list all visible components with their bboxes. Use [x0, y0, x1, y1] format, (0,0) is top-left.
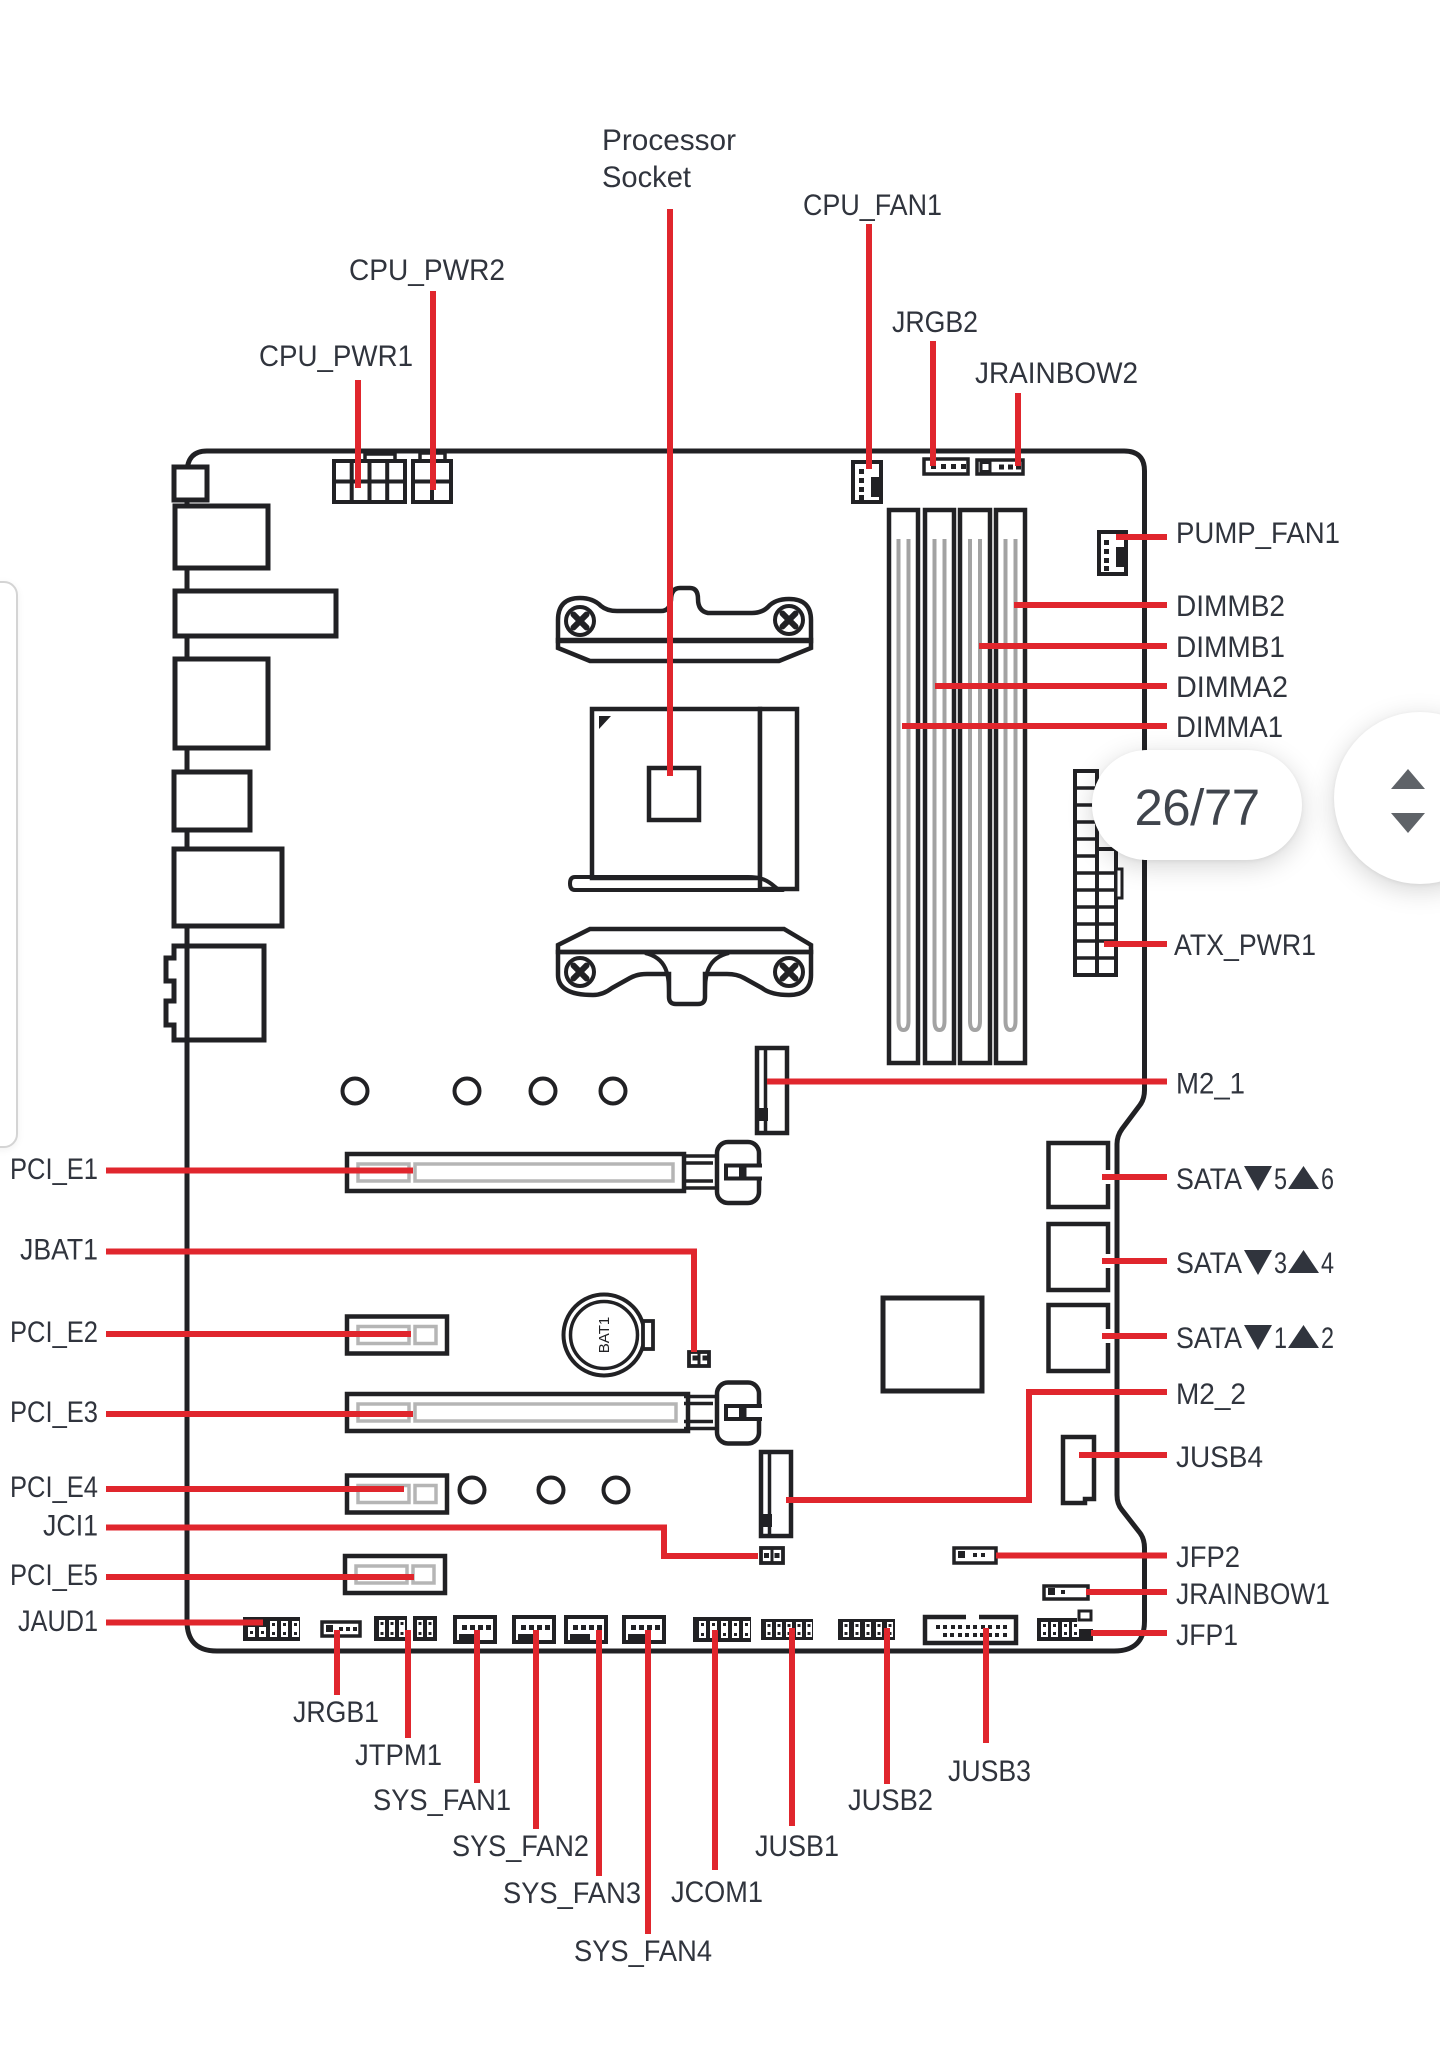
PCI_E3 retention latch	[684, 1395, 719, 1399]
svg-text:PCI_E2: PCI_E2	[10, 1316, 98, 1349]
red line CPU_PWR2	[430, 291, 436, 490]
svg-text:CPU_PWR2: CPU_PWR2	[349, 254, 505, 287]
JBAT1 clear-CMOS jumper	[689, 1352, 709, 1366]
bottom bracket funnel inner curves	[645, 953, 729, 993]
svg-text:SATA: SATA	[1176, 1322, 1242, 1355]
DIMM slot B2 outer	[996, 510, 1025, 1063]
CPU retention bracket bottom bar	[558, 952, 811, 1004]
svg-text:DIMMA2: DIMMA2	[1176, 671, 1288, 704]
scroll up arrow	[1391, 769, 1425, 789]
PCI_E1 retention latch	[684, 1154, 719, 1158]
SATA port pair 2	[1049, 1224, 1109, 1290]
PCI_E3 x16 slot	[347, 1394, 688, 1431]
red line SATA12	[1102, 1333, 1167, 1339]
rear IO connector block E	[174, 772, 250, 830]
svg-text:JCI1: JCI1	[43, 1510, 98, 1543]
red line JRGB2	[930, 341, 936, 466]
red line DIMMB1	[979, 643, 1167, 649]
svg-text:JRGB2: JRGB2	[892, 306, 978, 339]
red line SYS_FAN4	[645, 1630, 651, 1934]
connector CPU_FAN1	[853, 462, 881, 502]
red line PCI_E1	[106, 1168, 413, 1174]
svg-text:SYS_FAN2: SYS_FAN2	[452, 1830, 589, 1863]
red line CPU_FAN1	[866, 224, 872, 469]
red line CPU_PWR1	[355, 380, 361, 488]
svg-text:CPU_FAN1: CPU_FAN1	[803, 189, 942, 222]
connector JRGB2	[924, 459, 968, 474]
red line SATA34	[1102, 1258, 1167, 1264]
svg-text:DIMMB1: DIMMB1	[1176, 631, 1285, 664]
DIMM slot A1 outer	[889, 510, 918, 1063]
svg-text:SYS_FAN1: SYS_FAN1	[373, 1784, 511, 1817]
mounting hole 2	[455, 1079, 480, 1104]
svg-text:PCI_E4: PCI_E4	[10, 1471, 98, 1504]
svg-text:JFP2: JFP2	[1176, 1541, 1240, 1574]
red line DIMMB2	[1014, 602, 1167, 608]
mounting hole 3	[531, 1079, 556, 1104]
svg-text:JRAINBOW1: JRAINBOW1	[1176, 1578, 1330, 1611]
svg-text:JUSB3: JUSB3	[948, 1755, 1031, 1788]
red line PCI_E3	[106, 1411, 413, 1417]
rear IO connector block F	[174, 849, 282, 926]
scroll widget	[1334, 712, 1440, 884]
red line JFP1	[1091, 1630, 1167, 1636]
rear IO connector small square	[174, 467, 207, 500]
red line JRAINBOW2	[1015, 393, 1021, 466]
connector JFP2	[954, 1548, 996, 1563]
red line PCI_E2	[106, 1331, 411, 1337]
svg-text:M2_2: M2_2	[1176, 1378, 1246, 1411]
DIMM slot B1 inner channel	[970, 539, 980, 1030]
svg-text:6: 6	[1321, 1163, 1334, 1196]
svg-text:PCI_E3: PCI_E3	[10, 1396, 98, 1429]
red line JRGB1	[334, 1630, 340, 1695]
svg-text:3: 3	[1274, 1247, 1287, 1280]
svg-text:BAT1: BAT1	[596, 1317, 613, 1353]
connector PUMP_FAN1	[1099, 532, 1126, 574]
DIMM slot B1 outer	[960, 510, 990, 1063]
svg-text:JUSB1: JUSB1	[755, 1830, 839, 1863]
red line SYS_FAN2	[533, 1630, 539, 1829]
connector M2_2	[761, 1452, 791, 1536]
svg-text:PUMP_FAN1: PUMP_FAN1	[1176, 517, 1340, 550]
svg-text:DIMMB2: DIMMB2	[1176, 590, 1285, 623]
connector CPU_PWR1 8-pin	[334, 461, 405, 502]
svg-text:JRAINBOW2: JRAINBOW2	[975, 357, 1138, 390]
screw top-right	[775, 606, 803, 634]
DIMM slot A1 inner channel	[899, 539, 909, 1030]
page indicator pill 26/77	[1092, 750, 1302, 860]
red line JTPM1	[405, 1630, 411, 1738]
svg-text:JRGB1: JRGB1	[293, 1696, 379, 1729]
red line SATA56	[1102, 1174, 1167, 1180]
svg-text:5: 5	[1274, 1163, 1287, 1196]
red line PCI_E4	[106, 1486, 404, 1492]
svg-text:DIMMA1: DIMMA1	[1176, 711, 1283, 744]
PCI_E1 x16 slot	[347, 1154, 684, 1191]
red line PCI_E5	[106, 1574, 414, 1580]
SATA port pair 1	[1049, 1143, 1109, 1207]
connector SYS_FAN4	[624, 1617, 664, 1642]
connector CPU_PWR2 4-pin	[413, 461, 451, 502]
screw bottom-right	[775, 958, 803, 986]
connector JFP1	[1037, 1618, 1093, 1641]
red line PUMP_FAN1	[1116, 534, 1167, 540]
CPU retention bracket bottom plate	[558, 929, 811, 952]
red line DIMMA2	[935, 683, 1167, 689]
rear IO connector block C long	[175, 591, 336, 636]
scroll down arrow	[1391, 813, 1425, 833]
svg-text:SATA: SATA	[1176, 1163, 1242, 1196]
DIMM slot A2 inner channel	[935, 539, 945, 1030]
svg-text:JBAT1: JBAT1	[20, 1234, 98, 1267]
svg-text:Socket: Socket	[602, 161, 692, 194]
processor socket center square	[649, 768, 699, 820]
svg-text:JCOM1: JCOM1	[671, 1876, 763, 1909]
svg-text:JFP1: JFP1	[1176, 1619, 1238, 1652]
red line JCI1	[106, 1528, 758, 1557]
svg-text:SATA: SATA	[1176, 1247, 1242, 1280]
red line ATX_PWR1	[1104, 941, 1167, 947]
red line JCOM1	[712, 1630, 718, 1870]
previous page sheet edge	[0, 581, 18, 1148]
mounting hole 6	[539, 1478, 564, 1503]
rear IO connector block D	[175, 659, 268, 748]
processor socket outer square	[592, 709, 760, 878]
mounting hole 4	[601, 1079, 626, 1104]
svg-text:SYS_FAN3: SYS_FAN3	[503, 1877, 641, 1910]
svg-text:CPU_PWR1: CPU_PWR1	[259, 340, 413, 373]
svg-text:JUSB4: JUSB4	[1176, 1441, 1263, 1474]
connector ATX_PWR1 24-pin	[1075, 771, 1097, 975]
PCI_E5 x1 slot	[345, 1556, 445, 1593]
svg-text:JTPM1: JTPM1	[355, 1739, 442, 1772]
connector JCOM1	[693, 1617, 751, 1642]
red line JAUD1	[106, 1620, 263, 1626]
red line JUSB1	[789, 1628, 795, 1826]
connector CPU_PWR1 latch tab	[365, 454, 395, 461]
red line JFP2	[996, 1553, 1167, 1559]
socket lever bar	[570, 877, 779, 890]
red line Processor Socket	[667, 209, 673, 776]
CPU retention bracket top plate	[558, 640, 811, 661]
svg-text:JUSB2: JUSB2	[848, 1784, 933, 1817]
red line M2_1	[767, 1079, 1167, 1085]
connector SYS_FAN1	[455, 1617, 495, 1642]
red line SYS_FAN1	[474, 1630, 480, 1783]
svg-text:ATX_PWR1: ATX_PWR1	[1174, 929, 1316, 962]
connector JRAINBOW2	[977, 460, 1023, 474]
red line JBAT1	[106, 1252, 694, 1353]
connector JRAINBOW1	[1044, 1586, 1088, 1599]
DIMM slot A2 outer	[925, 510, 954, 1063]
connector SYS_FAN3	[566, 1617, 606, 1642]
red line JUSB4	[1079, 1452, 1167, 1458]
svg-text:PCI_E1: PCI_E1	[10, 1153, 98, 1186]
SATA port pair 3	[1049, 1305, 1109, 1371]
chipset square	[883, 1298, 982, 1391]
red line JUSB2	[884, 1628, 890, 1784]
red line JUSB3	[983, 1628, 989, 1743]
BAT1 coin battery	[564, 1295, 645, 1376]
svg-text:1: 1	[1274, 1322, 1287, 1355]
svg-text:SYS_FAN4: SYS_FAN4	[574, 1935, 712, 1968]
connector JUSB4	[1063, 1437, 1094, 1503]
processor socket right strip	[760, 709, 797, 889]
mounting hole 7	[604, 1478, 629, 1503]
connector SYS_FAN2	[514, 1617, 554, 1642]
svg-text:4: 4	[1321, 1247, 1334, 1280]
screw top-left	[566, 607, 594, 635]
CPU retention bracket top bar	[558, 588, 811, 641]
svg-text:PCI_E5: PCI_E5	[10, 1559, 98, 1592]
mounting hole 5	[460, 1478, 485, 1503]
connector JRGB1	[322, 1622, 360, 1636]
connector JUSB3 USB3 header	[925, 1617, 1016, 1643]
svg-text:2: 2	[1321, 1322, 1334, 1355]
connector JTPM1	[374, 1616, 407, 1641]
PCI_E4 x1 slot	[347, 1476, 447, 1513]
red line M2_2	[786, 1392, 1167, 1500]
socket pin-1 triangle marker	[599, 716, 611, 729]
svg-text:M2_1: M2_1	[1176, 1068, 1245, 1101]
rear IO connector block B	[175, 506, 268, 568]
connector JUSB1	[761, 1619, 813, 1640]
svg-text:JAUD1: JAUD1	[18, 1605, 98, 1638]
PCI_E2 x1 slot	[347, 1317, 447, 1354]
svg-text:Processor: Processor	[602, 124, 736, 157]
red line JRAINBOW1	[1086, 1589, 1167, 1595]
red line DIMMA1	[902, 723, 1167, 729]
connector JAUD1	[243, 1617, 300, 1641]
rear IO audio block with jacks	[166, 946, 264, 1040]
motherboard board outline	[187, 451, 1145, 1651]
screw bottom-left	[566, 958, 594, 986]
connector JUSB2	[838, 1619, 895, 1640]
red line SYS_FAN3	[596, 1630, 602, 1876]
mounting hole 1	[343, 1079, 368, 1104]
connector CPU_PWR2 latch tab	[420, 453, 445, 461]
connector JCI1	[761, 1548, 783, 1563]
DIMM slot B2 inner channel	[1006, 539, 1016, 1030]
connector M2_1	[757, 1048, 787, 1133]
